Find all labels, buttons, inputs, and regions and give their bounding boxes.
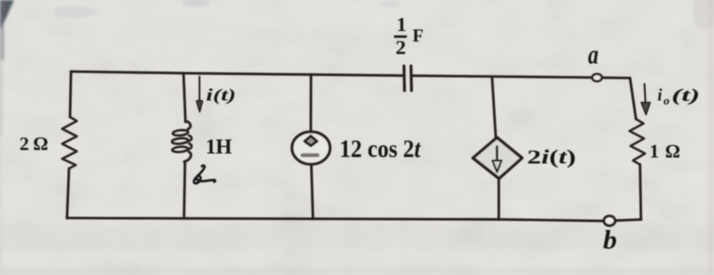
svg-text:2i(t): 2i(t) [527, 147, 576, 169]
svg-text:1 H: 1 H [206, 135, 233, 159]
svg-text:i(t): i(t) [206, 86, 236, 105]
svg-text:(t): (t) [672, 85, 701, 105]
svg-text:i: i [658, 86, 663, 105]
svg-text:o: o [664, 94, 670, 108]
svg-text:a: a [588, 40, 599, 70]
svg-text:b: b [603, 226, 617, 255]
svg-text:F: F [413, 26, 424, 46]
svg-text:12 cos 2t: 12 cos 2t [340, 136, 422, 163]
svg-text:1 Ω: 1 Ω [650, 142, 681, 163]
svg-text:1: 1 [397, 14, 407, 36]
svg-text:2 Ω: 2 Ω [20, 134, 49, 155]
svg-text:2: 2 [396, 37, 407, 59]
